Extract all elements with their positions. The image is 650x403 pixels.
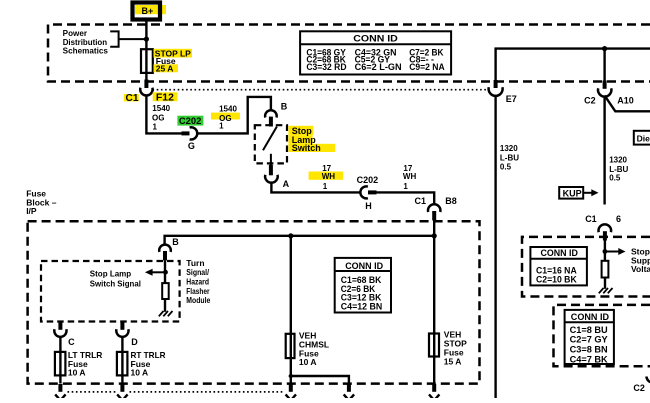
CONN ID table (right 1) <box>530 247 587 285</box>
svg-text:C3=32 RD: C3=32 RD <box>306 62 346 73</box>
svg-text:L-BU: L-BU <box>500 153 519 162</box>
svg-text:WH: WH <box>322 172 336 181</box>
highlight C1 <box>124 94 139 101</box>
wire resistor to ground <box>164 299 166 312</box>
fuse block dashed box <box>28 221 480 383</box>
bus wire in power box right <box>496 49 650 81</box>
svg-text:C1: C1 <box>126 93 139 104</box>
svg-text:Hazard: Hazard <box>186 278 209 287</box>
bottom exit arrow CHMSL left <box>286 394 296 400</box>
module connector B cup <box>159 245 171 252</box>
battery B+ box <box>133 3 161 20</box>
svg-text:C1: C1 <box>415 196 427 206</box>
bottom exit pin D <box>120 384 124 392</box>
bottom exit arrow VEH STOP <box>429 394 439 400</box>
svg-text:Turn: Turn <box>186 259 204 268</box>
svg-text:1: 1 <box>323 182 328 191</box>
svg-text:C2=10 BK: C2=10 BK <box>536 275 577 286</box>
switch terminal A cup <box>265 175 278 183</box>
SECTION: fuse block <box>26 188 479 400</box>
svg-text:1: 1 <box>403 182 408 191</box>
highlight F12 <box>153 92 178 101</box>
bracket from label to wire <box>110 31 146 46</box>
bottom dotted connector line <box>68 391 284 393</box>
bottom exit pin CHMSL left <box>289 384 293 392</box>
switch terminal B pin stub <box>269 117 273 127</box>
KUP box <box>559 187 583 199</box>
connector C202 G pin stub <box>182 131 190 135</box>
wire from C202 G to switch B <box>197 97 271 133</box>
arrow to Stop Suppr Voltage <box>605 251 619 253</box>
highlight 25 A <box>154 64 179 72</box>
right dashed box (stop suppression) <box>522 237 650 297</box>
svg-text:CONN ID: CONN ID <box>571 312 609 323</box>
stop lamp switch dashed box <box>255 125 287 163</box>
bottom exit pin CHMSL right <box>347 384 351 392</box>
junction dot B8/VEH STOP <box>432 233 437 238</box>
bottom exit pin VEH STOP <box>432 384 436 392</box>
svg-text:C4=7 BK: C4=7 BK <box>570 354 608 365</box>
Diesel box <box>634 131 650 145</box>
wire resistor to ground <box>604 278 606 289</box>
svg-text:C: C <box>68 337 75 347</box>
SECTION: right feeds E7 C2 <box>489 46 650 398</box>
junction dot stop signal <box>603 249 608 254</box>
wire C to LT fuse <box>59 336 61 383</box>
SECTION: stop lamp switch circuit <box>255 101 457 235</box>
connector C2 cup <box>598 88 611 96</box>
svg-text:1320: 1320 <box>500 144 518 153</box>
arrow to Stop Lamp Switch Signal <box>152 271 166 273</box>
dotted harness line under power box <box>153 89 490 91</box>
svg-text:15 A: 15 A <box>444 356 462 366</box>
wire C2 down to C1 6 <box>603 96 605 205</box>
label Power Distribution Schematics <box>63 29 109 55</box>
connector C1 B8 cup <box>428 204 440 212</box>
svg-text:CONN ID: CONN ID <box>353 34 398 45</box>
svg-text:0.5: 0.5 <box>500 163 512 172</box>
svg-text:C2: C2 <box>633 383 645 393</box>
connector C1/F12 pin stub <box>144 80 148 89</box>
ground symbol <box>159 311 173 316</box>
connector C202 H cup <box>360 186 368 198</box>
SECTION: right bottom boxes <box>522 237 650 393</box>
CONN ID table (fuse block) <box>335 258 391 313</box>
svg-text:CONN ID: CONN ID <box>345 261 383 272</box>
svg-text:Schematics: Schematics <box>63 47 109 56</box>
junction dot at arrow <box>163 270 168 275</box>
svg-text:1320: 1320 <box>609 156 627 165</box>
fuse RT TRLR 10A <box>117 352 128 376</box>
svg-text:1540: 1540 <box>152 104 170 113</box>
switch bottom contact wire <box>270 154 272 166</box>
svg-text:6: 6 <box>616 214 621 224</box>
svg-text:Distribution: Distribution <box>63 38 108 47</box>
svg-text:C1: C1 <box>585 214 597 224</box>
svg-text:C9=2 NA: C9=2 NA <box>409 62 445 73</box>
svg-text:10 A: 10 A <box>131 367 149 377</box>
svg-text:Switch Signal: Switch Signal <box>90 279 141 289</box>
wire from H to C1 B8 <box>377 192 435 204</box>
connector C1 6 pin stub <box>603 231 607 240</box>
highlight C202 (green) <box>177 116 203 126</box>
highlight STOP LP <box>154 49 193 58</box>
connector E7 pin stub <box>494 80 498 88</box>
wire down from C1 cup to C202 run <box>146 95 181 134</box>
wire C1 6 down to junction <box>604 241 606 261</box>
KUP arrow <box>583 192 592 194</box>
svg-text:I/P: I/P <box>26 206 37 216</box>
svg-text:Stop Lamp: Stop Lamp <box>90 268 131 278</box>
switch blade <box>263 127 277 151</box>
module internal wire <box>164 260 166 283</box>
svg-text:F12: F12 <box>156 93 174 104</box>
svg-text:1: 1 <box>219 122 224 131</box>
svg-text:KUP: KUP <box>563 188 582 198</box>
module connector B pin stub <box>163 251 167 260</box>
svg-text:B+: B+ <box>142 6 154 16</box>
fuse VEH CHMSL 10A <box>286 334 295 358</box>
connector C1/F12 cup <box>140 88 152 96</box>
lower right dashed box <box>554 305 650 366</box>
SECTION: power distribution box <box>48 25 650 90</box>
bottom exit pin C <box>58 384 62 392</box>
bus wire inside fuse block <box>165 236 435 245</box>
connector C pin stub <box>58 322 62 330</box>
svg-text:Switch: Switch <box>292 143 321 153</box>
switch terminal A pin stub <box>269 165 273 176</box>
highlight Stop Lamp Switch <box>288 126 313 136</box>
fuse VEH STOP 15A <box>429 334 439 357</box>
svg-text:E7: E7 <box>506 94 517 104</box>
svg-text:Voltag: Voltag <box>631 264 650 274</box>
switch terminal B cup <box>265 110 277 117</box>
junction dot at C2 branch <box>602 46 607 51</box>
svg-text:1540: 1540 <box>219 105 237 114</box>
svg-text:B: B <box>172 237 179 247</box>
svg-text:D: D <box>131 337 138 347</box>
svg-text:C202: C202 <box>357 175 379 185</box>
svg-text:Diese: Diese <box>637 133 650 143</box>
svg-text:Flasher: Flasher <box>186 287 209 296</box>
highlight OG (second) <box>211 113 240 120</box>
power distribution box dashed border <box>48 25 650 82</box>
SECTION: B+ feed and fuse <box>124 3 271 151</box>
connector D cup <box>116 329 128 337</box>
connector C2 pin stub <box>603 81 607 89</box>
module resistor <box>162 283 169 299</box>
highlight B+ <box>135 5 166 14</box>
SECTION: top conn id table <box>300 31 451 74</box>
svg-text:H: H <box>365 201 372 211</box>
wire D to RT fuse <box>121 336 123 383</box>
wire CHMSL fuse down with branch <box>291 376 349 384</box>
fuse STOP LP 25A symbol <box>141 49 153 73</box>
bottom exit arrow C <box>55 394 65 400</box>
connector C1 B8 pin stub <box>432 211 436 221</box>
bottom exit arrow D <box>117 394 127 400</box>
connector fragment at right edge <box>647 377 650 383</box>
svg-text:C4=12 BN: C4=12 BN <box>341 302 383 313</box>
connector C1 6 cup <box>599 224 612 232</box>
svg-text:25 A: 25 A <box>156 64 174 74</box>
ground symbol (right) <box>599 288 613 293</box>
svg-text:B8: B8 <box>445 196 457 206</box>
CONN ID table (power box) <box>300 31 451 74</box>
svg-text:OG: OG <box>152 114 164 123</box>
svg-text:WH: WH <box>403 172 417 181</box>
fuse LT TRLR 10A <box>55 352 66 376</box>
svg-text:A10: A10 <box>617 96 634 106</box>
svg-text:CONN ID: CONN ID <box>541 248 579 259</box>
svg-text:C202: C202 <box>179 116 202 126</box>
svg-text:C6=2 L-GN: C6=2 L-GN <box>355 62 402 73</box>
connector D pin stub <box>120 322 124 330</box>
wire from B+ down through fuse to connector <box>145 20 147 81</box>
resistor (right) <box>602 261 609 278</box>
connector C202 G cup <box>190 127 198 139</box>
svg-text:10 A: 10 A <box>68 367 86 377</box>
CONN ID table (right 2) <box>565 310 614 364</box>
connector C cup <box>54 329 66 337</box>
connector E7 cup <box>489 87 503 96</box>
connector C202 H pin stub <box>368 190 377 194</box>
svg-text:G: G <box>188 141 195 151</box>
wire A10 diagonal to right edge <box>605 96 650 112</box>
junction dot at B+ wire <box>144 37 149 42</box>
svg-text:1: 1 <box>153 123 158 132</box>
wire E7 down full height <box>494 95 496 398</box>
wire C2 drop <box>603 49 605 81</box>
wire bus to VEH CHMSL fuse <box>290 236 292 384</box>
turn signal hazard flasher module dashed box <box>41 261 180 322</box>
junction dot under CHMSL <box>289 374 293 378</box>
wire from B8 into fuse block <box>433 221 435 236</box>
svg-text:Signal/: Signal/ <box>186 268 209 277</box>
svg-text:10 A: 10 A <box>299 357 317 367</box>
wire from A to C202 H <box>271 182 360 192</box>
wire bus to VEH STOP fuse <box>433 236 435 384</box>
svg-text:Module: Module <box>186 296 210 305</box>
svg-text:A: A <box>283 179 290 189</box>
svg-text:B: B <box>281 101 288 111</box>
svg-text:0.5: 0.5 <box>609 173 621 182</box>
junction dot CHMSL branch <box>288 233 293 238</box>
svg-text:C2: C2 <box>584 96 596 106</box>
bottom exit arrow CHMSL right <box>344 394 354 400</box>
